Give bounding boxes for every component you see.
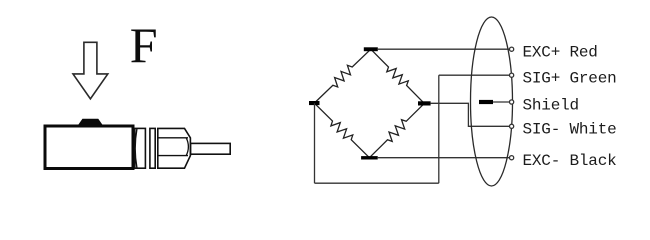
svg-text:SIG+ Green: SIG+ Green [523,70,617,88]
hex face line lower [158,155,188,157]
resistor R4 bottom-left [314,103,369,158]
svg-text:Shield: Shield [523,96,579,114]
shield bar [479,100,493,104]
wire EXC- [378,157,510,159]
load button [79,119,103,125]
wire SIG- [431,103,510,126]
resistor R2 top-right [371,49,425,103]
force arrow F [73,42,108,99]
collar curve [135,129,137,168]
load cell body [45,126,133,169]
svg-text:SIG- White: SIG- White [523,121,617,139]
cable ellipse [471,17,513,186]
terminal EXC- [510,156,514,160]
cable gland collar [135,128,146,168]
terminal EXC+ [510,47,514,51]
svg-text:F: F [130,17,158,73]
wire shield lead [493,101,510,103]
hex face line upper [158,137,188,139]
node left [309,101,320,105]
terminal SIG+ [510,73,514,77]
hex chamfer arc [186,138,188,156]
resistor R3 bottom-right [369,103,424,157]
wire left-node drop [314,103,316,183]
gland hex nut [158,128,191,168]
node right [418,101,431,105]
svg-text:EXC+ Red: EXC+ Red [523,44,598,62]
terminal Shield [510,100,514,104]
wire bottom rail [315,182,439,184]
node top [364,47,378,51]
wire EXC+ [378,48,510,50]
wire SIG+ riser [438,75,440,183]
node bottom [361,156,378,159]
wire SIG+ [439,74,510,76]
resistor R1 top-left [314,49,371,103]
cable stub [191,143,231,154]
svg-text:EXC- Black: EXC- Black [523,152,617,170]
gland washer [150,128,155,168]
terminal SIG- [510,124,514,128]
